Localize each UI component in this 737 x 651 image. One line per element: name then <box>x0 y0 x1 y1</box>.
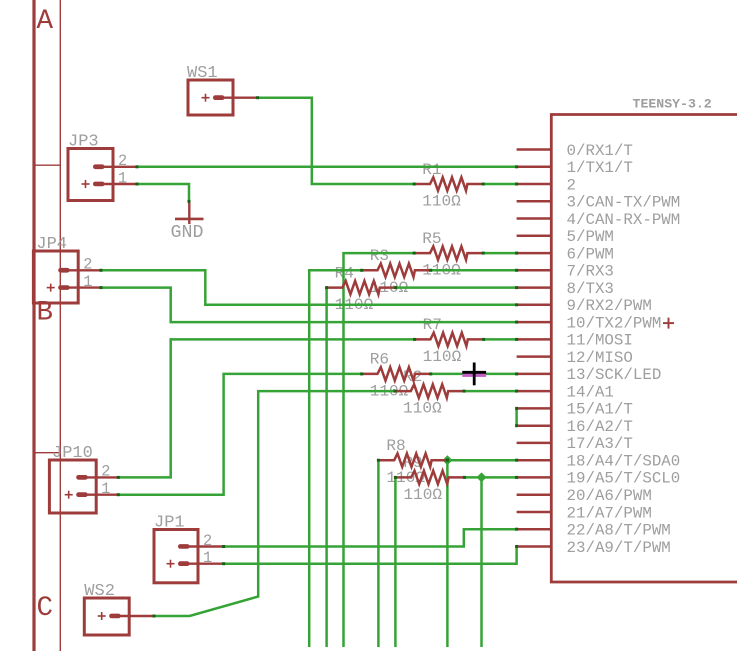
svg-text:8/TX3: 8/TX3 <box>567 280 614 298</box>
svg-text:JP10: JP10 <box>52 444 93 463</box>
svg-text:16/A2/T: 16/A2/T <box>567 418 633 436</box>
svg-text:110Ω: 110Ω <box>423 348 462 366</box>
svg-text:110Ω: 110Ω <box>403 400 442 418</box>
svg-text:2: 2 <box>203 532 212 550</box>
svg-text:WS1: WS1 <box>187 64 218 83</box>
svg-text:13/SCK/LED: 13/SCK/LED <box>567 366 662 384</box>
svg-text:R3: R3 <box>370 247 389 265</box>
svg-text:12/MISO: 12/MISO <box>567 349 633 367</box>
svg-text:7/RX3: 7/RX3 <box>567 263 614 281</box>
svg-text:R5: R5 <box>422 230 441 248</box>
svg-text:JP1: JP1 <box>154 514 185 533</box>
svg-text:R8: R8 <box>386 437 405 455</box>
svg-text:2: 2 <box>567 176 576 194</box>
svg-text:5/PWM: 5/PWM <box>567 228 614 246</box>
svg-text:17/A3/T: 17/A3/T <box>567 435 633 453</box>
svg-text:1: 1 <box>83 273 92 291</box>
svg-text:10/TX2/PWM: 10/TX2/PWM <box>567 314 662 332</box>
svg-text:1: 1 <box>118 169 127 187</box>
svg-text:20/A6/PWM: 20/A6/PWM <box>567 487 652 505</box>
svg-text:1: 1 <box>203 549 212 567</box>
svg-text:C: C <box>37 593 54 624</box>
svg-text:JP3: JP3 <box>68 133 99 152</box>
svg-text:4/CAN-RX-PWM: 4/CAN-RX-PWM <box>567 211 681 229</box>
svg-text:A: A <box>37 6 54 37</box>
svg-text:19/A5/T/SCL0: 19/A5/T/SCL0 <box>567 470 681 488</box>
svg-text:22/A8/T/PWM: 22/A8/T/PWM <box>567 522 671 540</box>
svg-text:6/PWM: 6/PWM <box>567 245 614 263</box>
svg-text:15/A1/T: 15/A1/T <box>567 401 633 419</box>
svg-text:110Ω: 110Ω <box>403 486 442 504</box>
svg-text:11/MOSI: 11/MOSI <box>567 332 633 350</box>
svg-text:2: 2 <box>101 463 110 481</box>
svg-text:18/A4/T/SDA0: 18/A4/T/SDA0 <box>567 453 681 471</box>
svg-text:9/RX2/PWM: 9/RX2/PWM <box>567 297 652 315</box>
svg-text:R6: R6 <box>370 351 389 369</box>
svg-text:2: 2 <box>118 152 127 170</box>
svg-text:TEENSY-3.2: TEENSY-3.2 <box>633 97 712 112</box>
svg-text:110Ω: 110Ω <box>422 193 461 211</box>
svg-text:GND: GND <box>171 223 204 243</box>
svg-text:1/TX1/T: 1/TX1/T <box>567 159 633 177</box>
svg-text:2: 2 <box>83 256 92 274</box>
svg-text:21/A7/PWM: 21/A7/PWM <box>567 504 652 522</box>
svg-text:WS2: WS2 <box>84 582 115 601</box>
svg-text:0/RX1/T: 0/RX1/T <box>567 142 633 160</box>
svg-text:23/A9/T/PWM: 23/A9/T/PWM <box>567 539 671 557</box>
svg-text:3/CAN-TX/PWM: 3/CAN-TX/PWM <box>567 194 681 212</box>
svg-text:R1: R1 <box>422 161 441 179</box>
svg-text:JP4: JP4 <box>36 235 67 254</box>
svg-text:R7: R7 <box>423 316 442 334</box>
svg-text:1: 1 <box>101 480 110 498</box>
svg-text:14/A1: 14/A1 <box>567 383 614 401</box>
